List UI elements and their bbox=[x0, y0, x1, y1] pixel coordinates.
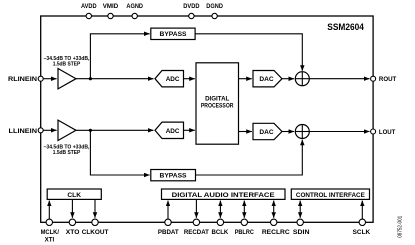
svg-text:PBLRC: PBLRC bbox=[235, 229, 255, 236]
pin BCLK bbox=[212, 219, 229, 236]
svg-text:ROUT: ROUT bbox=[379, 76, 396, 83]
wire summer to LOUT bbox=[309, 131, 369, 133]
svg-text:XTO: XTO bbox=[66, 229, 80, 236]
wire DAC right to summer bbox=[282, 78, 294, 80]
pin PBDAT bbox=[158, 219, 179, 236]
DAC right channel bbox=[253, 71, 282, 87]
amplifier left PGA bbox=[44, 120, 90, 156]
pin LLINEIN bbox=[9, 128, 44, 135]
svg-text:RECLRC: RECLRC bbox=[262, 229, 290, 236]
svg-text:RECDAT: RECDAT bbox=[184, 229, 209, 236]
pin DGND bbox=[206, 3, 223, 19]
wire CLK to XTO bbox=[71, 200, 73, 218]
pin DVDD bbox=[183, 3, 200, 19]
pin SDIN bbox=[293, 219, 310, 236]
svg-text:DAC: DAC bbox=[259, 76, 274, 83]
wire DAC left to summer bbox=[282, 131, 294, 133]
pin VMID bbox=[103, 3, 119, 19]
wire ADC right to digital processor bbox=[184, 78, 195, 80]
svg-text:SDIN: SDIN bbox=[293, 229, 310, 236]
digital processor block bbox=[196, 63, 239, 144]
svg-text:1.5dB STEP: 1.5dB STEP bbox=[53, 61, 81, 67]
svg-text:1.5dB STEP: 1.5dB STEP bbox=[53, 150, 81, 156]
pin AGND bbox=[126, 3, 143, 19]
svg-text:PROCESSOR: PROCESSOR bbox=[201, 103, 234, 110]
wire ADC left to digital processor bbox=[184, 129, 195, 131]
wire RECLRC bidirectional bbox=[273, 201, 275, 218]
pin SCLK bbox=[353, 219, 371, 236]
svg-text:DAC: DAC bbox=[259, 129, 274, 136]
svg-text:ADC: ADC bbox=[166, 76, 180, 83]
wire right PGA output to ADC bbox=[76, 78, 154, 80]
svg-text:DIGITAL AUDIO INTERFACE: DIGITAL AUDIO INTERFACE bbox=[172, 192, 276, 199]
node junction right channel bbox=[89, 77, 92, 80]
svg-text:AVDD: AVDD bbox=[81, 3, 97, 10]
svg-text:08752-001: 08752-001 bbox=[398, 216, 404, 238]
chip outer boundary box bbox=[41, 16, 373, 222]
wire PBDAT to digital audio interface bbox=[167, 201, 169, 220]
svg-text:BYPASS: BYPASS bbox=[160, 173, 188, 180]
pin ROUT bbox=[371, 76, 397, 83]
svg-text:CONTROL INTERFACE: CONTROL INTERFACE bbox=[296, 192, 366, 199]
svg-text:DIGITAL: DIGITAL bbox=[205, 96, 229, 103]
svg-text:PBDAT: PBDAT bbox=[158, 229, 179, 236]
wire MCLK/XTI to CLK bbox=[48, 201, 50, 220]
pin RLINEIN bbox=[8, 76, 43, 83]
wire SCLK to control interface bbox=[361, 201, 363, 220]
pin AVDD bbox=[81, 3, 97, 19]
svg-text:XTI: XTI bbox=[45, 236, 55, 243]
pin MCLK/XTI bbox=[41, 219, 60, 243]
wire LLINEIN to left PGA bbox=[43, 129, 56, 131]
wire digital processor to DAC right bbox=[239, 78, 252, 80]
svg-text:SCLK: SCLK bbox=[353, 229, 371, 236]
node junction left channel bbox=[89, 129, 92, 132]
ADC left channel bbox=[155, 122, 184, 138]
svg-text:CLK: CLK bbox=[67, 192, 81, 199]
amplifier right PGA bbox=[44, 56, 90, 89]
svg-text:DGND: DGND bbox=[206, 3, 223, 10]
pin LOUT bbox=[371, 129, 396, 136]
ADC right channel bbox=[155, 71, 184, 87]
wire summer to ROUT bbox=[309, 78, 369, 80]
wire bypass right channel to summer bbox=[195, 34, 302, 71]
wire digital audio interface to RECDAT bbox=[195, 200, 197, 218]
summer left channel bbox=[295, 125, 309, 139]
bypass block right channel bbox=[151, 28, 195, 39]
wire digital processor to DAC left bbox=[239, 131, 252, 133]
wire PBLRC bidirectional bbox=[243, 201, 245, 218]
svg-text:AGND: AGND bbox=[126, 3, 143, 10]
pin RECLRC bbox=[262, 219, 290, 236]
svg-text:ADC: ADC bbox=[166, 128, 180, 135]
pin CLKOUT bbox=[82, 219, 109, 236]
wire BCLK bidirectional bbox=[219, 201, 221, 218]
digital audio interface block bbox=[162, 189, 286, 199]
pin PBLRC bbox=[235, 219, 255, 236]
svg-text:CLKOUT: CLKOUT bbox=[82, 229, 109, 236]
clock block CLK bbox=[47, 189, 101, 199]
wire junction up to bypass row bbox=[90, 34, 149, 79]
svg-text:BCLK: BCLK bbox=[212, 229, 229, 236]
wire left PGA output to ADC bbox=[76, 129, 154, 131]
svg-text:MCLK/: MCLK/ bbox=[41, 229, 60, 236]
pin RECDAT bbox=[184, 219, 209, 236]
svg-text:SSM2604: SSM2604 bbox=[327, 22, 364, 33]
svg-text:LOUT: LOUT bbox=[379, 129, 395, 136]
wire CLK to CLKOUT bbox=[94, 200, 96, 218]
wire SDIN bidirectional bbox=[299, 201, 301, 218]
wire bypass left channel to summer bbox=[196, 140, 303, 175]
wire junction down to bypass row bbox=[90, 130, 149, 175]
wire RLINEIN to right PGA bbox=[43, 78, 56, 80]
DAC left channel bbox=[253, 123, 282, 139]
control interface block bbox=[291, 189, 369, 199]
svg-text:DVDD: DVDD bbox=[183, 3, 200, 10]
svg-text:LLINEIN: LLINEIN bbox=[9, 128, 38, 135]
bypass block left channel bbox=[151, 170, 196, 181]
svg-text:RLINEIN: RLINEIN bbox=[8, 76, 37, 83]
svg-text:BYPASS: BYPASS bbox=[160, 31, 188, 38]
svg-text:VMID: VMID bbox=[103, 3, 119, 10]
summer right channel bbox=[295, 72, 309, 86]
pin XTO bbox=[66, 219, 80, 236]
